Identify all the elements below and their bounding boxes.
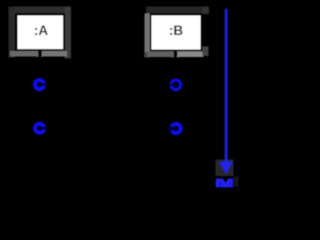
object B body (white) — [152, 16, 201, 50]
object B bottom-right corner blob — [203, 47, 209, 57]
state ring B2 (lower-right blue donut) — [170, 124, 181, 133]
object B right port tab — [177, 52, 204, 58]
object B left port tab — [147, 52, 174, 58]
time axis backdrop (dark gray) — [216, 160, 234, 177]
state ring A2 (lower-left blue donut) — [35, 124, 46, 133]
time axis line (blue, vertical) — [225, 9, 228, 163]
time axis arrowhead (blue, pointing down) — [219, 162, 233, 175]
object A body (white) — [18, 16, 64, 50]
object B top band (dark gray) — [146, 7, 209, 14]
object A right port tab — [42, 51, 68, 57]
object A border (black) — [15, 13, 65, 51]
artifact patch right of label — [234, 177, 239, 187]
svg-text::A: :A — [34, 23, 48, 38]
time axis label (blue text blob) — [216, 179, 233, 188]
state ring A1 (upper-left blue donut) — [35, 80, 46, 89]
state ring B1 (upper-right blue donut) — [170, 80, 180, 90]
object B left band bottom corner — [144, 52, 150, 58]
object B left band (light gray) — [145, 14, 151, 53]
lifeline column under object A (very dark) — [36, 56, 43, 172]
lifeline column under object B (very dark) — [171, 56, 179, 172]
object A frame (gray outer band) — [9, 7, 72, 59]
object B border (black) — [150, 13, 203, 51]
svg-text::B: :B — [169, 23, 183, 38]
object A left port tab — [10, 51, 39, 57]
object B top-right corner block — [202, 7, 209, 15]
